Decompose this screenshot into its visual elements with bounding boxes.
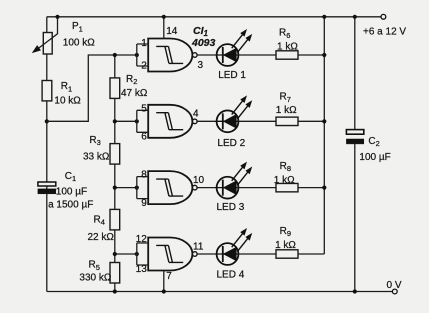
svg-text:R5: R5 bbox=[89, 260, 100, 272]
svg-text:C2: C2 bbox=[368, 136, 379, 148]
svg-text:1 kΩ: 1 kΩ bbox=[275, 240, 296, 251]
label LED 1 bbox=[218, 70, 246, 81]
label R6 bbox=[279, 28, 290, 40]
svg-text:+6 a 12 V: +6 a 12 V bbox=[363, 26, 406, 37]
resistor R2 bbox=[110, 78, 120, 99]
svg-text:R7: R7 bbox=[280, 92, 291, 104]
capacitor C1 (electrolytic) bbox=[38, 182, 56, 194]
pin 14 label bbox=[166, 26, 178, 37]
svg-text:330 kΩ: 330 kΩ bbox=[79, 272, 111, 283]
LED 1 bbox=[217, 30, 252, 66]
svg-text:100 kΩ: 100 kΩ bbox=[63, 37, 95, 48]
capacitor C2 (electrolytic) bbox=[346, 130, 363, 144]
label R1 value 10 k&#937; bbox=[54, 95, 81, 106]
op NAND gate U1c (4093) bbox=[137, 171, 197, 204]
label R7 bbox=[280, 92, 291, 104]
svg-text:11: 11 bbox=[193, 241, 204, 252]
wire: LED 2 to R7 bbox=[238, 120, 276, 122]
label +6 a 12 V bbox=[363, 26, 406, 37]
label C1 bbox=[65, 171, 76, 183]
wire: +V top rail bbox=[47, 16, 381, 18]
svg-text:LED 3: LED 3 bbox=[217, 202, 245, 213]
junction: R column node row 3 bbox=[113, 186, 117, 190]
svg-text:0 V: 0 V bbox=[387, 280, 402, 291]
label CI1 4093 bbox=[191, 25, 216, 49]
wire: LED 1 to R6 bbox=[238, 54, 276, 56]
pin 3 label bbox=[198, 60, 204, 71]
svg-text:12: 12 bbox=[136, 234, 148, 245]
pin 11 label bbox=[193, 241, 204, 252]
potentiometer P1 bbox=[33, 17, 58, 54]
svg-text:33 kΩ: 33 kΩ bbox=[83, 152, 110, 163]
svg-text:100 µF: 100 µF bbox=[359, 152, 390, 163]
svg-text:R1: R1 bbox=[61, 81, 72, 93]
junction: R6 on +V bus bbox=[322, 53, 326, 57]
label R3 bbox=[89, 135, 100, 147]
svg-text:C1: C1 bbox=[65, 171, 76, 183]
pin 2 label bbox=[141, 61, 147, 72]
svg-text:100 µF: 100 µF bbox=[56, 186, 87, 197]
pin 7 label bbox=[166, 271, 172, 282]
pin 10 label bbox=[193, 175, 205, 186]
resistor R8 bbox=[276, 183, 298, 191]
wire: R8 to +V bus bbox=[298, 187, 324, 189]
junction: R8 on +V bus bbox=[322, 186, 326, 190]
svg-text:R6: R6 bbox=[279, 28, 290, 40]
junction: pin 14 on +V rail bbox=[162, 15, 166, 19]
label C2 value 100 &#181;F bbox=[359, 152, 390, 163]
junction: P1 wiper to +V rail bbox=[55, 15, 59, 19]
svg-text:4093: 4093 bbox=[191, 37, 216, 49]
label R2 value 47 k&#937; bbox=[121, 88, 148, 99]
wire: pin 14 to +V rail bbox=[163, 17, 165, 39]
label R9 bbox=[280, 226, 291, 238]
wire: LED 3 to R8 bbox=[238, 187, 276, 189]
terminal +V bbox=[381, 14, 386, 19]
wire: pin 7 to 0V rail bbox=[163, 271, 165, 292]
LED 2 bbox=[217, 96, 252, 132]
svg-text:10: 10 bbox=[193, 175, 205, 186]
label LED 2 bbox=[217, 138, 245, 149]
label C1 value a 1500 &#181;F bbox=[48, 199, 93, 210]
svg-text:2: 2 bbox=[141, 61, 147, 72]
svg-text:22 kΩ: 22 kΩ bbox=[88, 232, 115, 243]
label R4 value 22 k&#937; bbox=[88, 232, 115, 243]
label R1 bbox=[61, 81, 72, 93]
label R3 value 33 k&#937; bbox=[83, 152, 110, 163]
junction: bus on +V rail bbox=[322, 15, 326, 19]
wire: node row 2 to gate input bracket bbox=[115, 120, 137, 122]
wire: gate output to LED 3 bbox=[197, 187, 217, 189]
pin 6 label bbox=[141, 132, 147, 143]
label R2 bbox=[126, 74, 137, 86]
resistor R7 bbox=[276, 117, 298, 125]
label LED 4 bbox=[217, 269, 245, 280]
svg-text:8: 8 bbox=[141, 169, 147, 180]
svg-text:6: 6 bbox=[141, 132, 147, 143]
label R8 bbox=[280, 161, 291, 173]
svg-text:R8: R8 bbox=[280, 161, 291, 173]
junction: pin 7 on 0V rail bbox=[162, 289, 166, 293]
pin 8 label bbox=[141, 169, 147, 180]
wire: node row 3 to gate input bracket bbox=[115, 187, 137, 189]
wire: R9 to +V bus bbox=[298, 253, 324, 255]
resistor R9 bbox=[276, 250, 298, 258]
junction: bracket node row 4 bbox=[135, 252, 139, 256]
svg-text:14: 14 bbox=[166, 26, 178, 37]
svg-text:3: 3 bbox=[198, 60, 204, 71]
wire: R7 to +V bus bbox=[298, 120, 324, 122]
pin 12 label bbox=[136, 234, 148, 245]
svg-text:9: 9 bbox=[141, 198, 147, 209]
svg-text:1: 1 bbox=[141, 38, 147, 49]
label R6 value 1 k&#937; bbox=[277, 41, 298, 52]
svg-text:R9: R9 bbox=[280, 226, 291, 238]
wire: LED 4 to R9 bbox=[238, 253, 276, 255]
wire: gate output to LED 2 bbox=[197, 120, 217, 122]
junction: R column node row 2 bbox=[113, 119, 117, 123]
resistor R6 bbox=[276, 51, 298, 59]
svg-text:5: 5 bbox=[141, 104, 147, 115]
svg-text:7: 7 bbox=[166, 271, 172, 282]
label P1 bbox=[72, 21, 83, 33]
wire: +V bus for LED resistors bbox=[323, 17, 325, 254]
svg-text:LED 4: LED 4 bbox=[217, 269, 245, 280]
label R5 value 330 k&#937; bbox=[79, 272, 111, 283]
wire: C2 top to +V rail bbox=[354, 17, 356, 130]
pin 13 label bbox=[136, 264, 148, 275]
svg-text:1 kΩ: 1 kΩ bbox=[274, 175, 295, 186]
svg-text:LED 2: LED 2 bbox=[217, 138, 245, 149]
wire: gate output to LED 1 bbox=[197, 54, 217, 56]
label R7 value 1 k&#937; bbox=[276, 105, 297, 116]
svg-text:47 kΩ: 47 kΩ bbox=[121, 88, 148, 99]
junction: R7 on +V bus bbox=[322, 119, 326, 123]
junction: bracket node row 1 bbox=[135, 53, 139, 57]
svg-text:10 kΩ: 10 kΩ bbox=[54, 95, 81, 106]
op NAND gate U1b (4093) bbox=[137, 105, 197, 138]
junction: R1 bottom / feed node bbox=[45, 119, 49, 123]
svg-text:R2: R2 bbox=[126, 74, 137, 86]
junction: R column node row 4 bbox=[113, 252, 117, 256]
label C1 value 100 &#181;F bbox=[56, 186, 87, 197]
resistor R4 bbox=[110, 209, 120, 230]
junction: R column node row 1 bbox=[113, 53, 117, 57]
wire: gate output to LED 4 bbox=[197, 253, 217, 255]
wire: R1 bottom to gate 1 input node bbox=[47, 55, 137, 121]
resistor R1 bbox=[42, 81, 52, 101]
svg-text:13: 13 bbox=[136, 264, 148, 275]
op NAND gate U1a (4093) bbox=[137, 39, 197, 72]
junction: R5 to 0V rail bbox=[113, 289, 117, 293]
pin 5 label bbox=[141, 104, 147, 115]
junction: C2 on +V rail bbox=[353, 15, 357, 19]
LED 4 bbox=[217, 229, 252, 265]
label C2 bbox=[368, 136, 379, 148]
wire: timing resistor column R2-R5 bbox=[114, 55, 116, 292]
label 0 V bbox=[387, 280, 402, 291]
label R8 value 1 k&#937; bbox=[274, 175, 295, 186]
junction: bracket node row 2 bbox=[135, 119, 139, 123]
resistor R3 bbox=[110, 144, 120, 165]
label R5 bbox=[89, 260, 100, 272]
pin 1 label bbox=[141, 38, 147, 49]
junction: bracket node row 3 bbox=[135, 186, 139, 190]
wire: 0V bottom rail bbox=[47, 291, 393, 293]
wire: C2 bottom to 0V rail bbox=[354, 144, 356, 292]
pin 9 label bbox=[141, 198, 147, 209]
wire: left rail (P1/R1/C1 column) bbox=[46, 17, 48, 292]
label R4 bbox=[94, 214, 105, 226]
svg-text:P1: P1 bbox=[72, 21, 83, 33]
terminal 0V bbox=[392, 289, 397, 294]
wire: node row 4 to gate input bracket bbox=[115, 253, 137, 255]
label R9 value 1 k&#937; bbox=[275, 240, 296, 251]
op NAND gate U1d (4093) bbox=[137, 238, 197, 271]
svg-text:1 kΩ: 1 kΩ bbox=[277, 41, 298, 52]
svg-text:LED 1: LED 1 bbox=[218, 70, 246, 81]
svg-text:a 1500 µF: a 1500 µF bbox=[48, 199, 93, 210]
LED 3 bbox=[217, 163, 252, 199]
svg-text:4: 4 bbox=[193, 109, 199, 120]
label LED 3 bbox=[217, 202, 245, 213]
resistor R5 bbox=[110, 263, 120, 284]
label P1 value 100 k&#937; bbox=[63, 37, 95, 48]
junction: C2 on 0V rail bbox=[353, 289, 357, 293]
svg-text:R4: R4 bbox=[94, 214, 105, 226]
pin 4 label bbox=[193, 109, 199, 120]
wire: R6 to +V bus bbox=[298, 54, 324, 56]
svg-text:R3: R3 bbox=[89, 135, 100, 147]
svg-text:1 kΩ: 1 kΩ bbox=[276, 105, 297, 116]
